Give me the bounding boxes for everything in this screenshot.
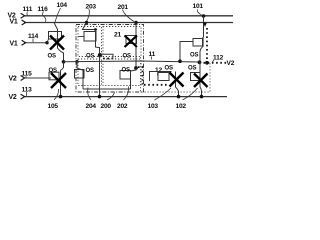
svg-text:105: 105 bbox=[48, 103, 59, 110]
wire W1 horizontal y61.5 connecting node A across to node E bbox=[64, 61, 200, 62]
label 115 with tick bbox=[22, 71, 33, 79]
transistor 203 gate rectangle bbox=[84, 32, 96, 42]
transistor 105 gate rectangle bbox=[49, 72, 59, 80]
label 111 with lead to V2 line bbox=[23, 6, 33, 16]
svg-text:V2: V2 bbox=[227, 60, 235, 67]
svg-text:103: 103 bbox=[148, 103, 159, 110]
transistor 101 gate rectangle bbox=[193, 39, 203, 47]
bold dotted charge path from node C down and right to transistor 103 bbox=[138, 67, 168, 85]
svg-text:V2: V2 bbox=[9, 76, 17, 83]
node small dot at 203 channel top bbox=[94, 28, 97, 31]
transistor 105 drain wire from node A bbox=[61, 62, 64, 71]
dash-dot outer box 200 bbox=[76, 25, 144, 93]
svg-text:21: 21 bbox=[114, 32, 121, 39]
node junction dot on V1 line for transistor 201 bbox=[134, 21, 138, 25]
fine dotted box 11 around output transistors bbox=[141, 57, 211, 92]
label 200 with lead to dash-dot box bbox=[101, 93, 115, 111]
transistor 203 channel and source jog bbox=[96, 30, 100, 55]
transistor 101 drain from V2 dot bbox=[203, 16, 205, 37]
transistor 201 channel and source to node C bbox=[135, 36, 137, 69]
transistor 202 channel and source down to W2 bbox=[130, 71, 132, 90]
transistor 104 drain wire from V1 line bbox=[54, 23, 58, 32]
label 105 with lead bbox=[48, 89, 59, 110]
label 11 with tick bbox=[149, 51, 156, 60]
svg-text:OS: OS bbox=[165, 66, 173, 72]
wire vertical from 203 source down to bottom line bbox=[99, 55, 101, 97]
node bold dot at dotted corner bbox=[205, 61, 209, 65]
svg-text:OS: OS bbox=[122, 68, 130, 74]
dotted box 21 around transistor 201 bbox=[103, 27, 141, 57]
wire 101 source down through node E to transistor 102 bbox=[200, 47, 203, 73]
label 101 with lead to junction dot bbox=[193, 3, 204, 15]
node junction dot 102 source on bottom line bbox=[200, 95, 204, 99]
transistor 204 drain wire from node B bbox=[77, 62, 83, 70]
label 203 with lead bbox=[86, 4, 97, 22]
wire V1 mid-left input line 114 bbox=[24, 42, 47, 44]
wire branch right from node at y54 bbox=[100, 54, 113, 57]
transistor 103 gate wire and loop bbox=[150, 72, 172, 82]
node junction dot D (180,61) bbox=[178, 59, 182, 63]
label V2 top-left with input arrow bbox=[8, 12, 25, 19]
wire V2 lower-left input line 115 bbox=[24, 77, 51, 79]
X mark over transistor 105 (off) bbox=[51, 73, 66, 88]
svg-text:OS: OS bbox=[123, 54, 131, 60]
transistor 101 channel bbox=[202, 37, 204, 47]
label V1 mid-left with input arrow bbox=[10, 40, 26, 47]
node junction dot A left (63.5,61.8) bbox=[62, 60, 66, 64]
bold dotted sense path vertical x207 bbox=[206, 28, 208, 63]
transistor 103 channel and source to bottom line bbox=[176, 72, 179, 97]
node junction dot 203 drain on V1 line bbox=[85, 21, 88, 24]
transistor 202 drain wire from node C bbox=[131, 68, 137, 71]
label V2 bottom-left with input arrow bbox=[9, 94, 25, 101]
svg-text:OS: OS bbox=[188, 66, 196, 72]
label 103 with lead bbox=[148, 88, 172, 110]
wire gate stub 104 bbox=[47, 39, 49, 43]
dotted box around transistor 203 bbox=[78, 27, 102, 57]
transistor 201 drain from V1 dot bbox=[135, 23, 137, 36]
svg-text:V2: V2 bbox=[9, 94, 17, 101]
transistor 105 channel and source to bottom line bbox=[60, 71, 62, 97]
dotted box around transistor 204 bbox=[78, 59, 102, 86]
node junction dot B (77,61.8) bbox=[75, 60, 79, 64]
svg-text:OS: OS bbox=[190, 53, 198, 59]
svg-text:204: 204 bbox=[86, 103, 97, 110]
wire V2 bottom bus line 113 bbox=[24, 96, 227, 98]
X mark over transistor 104 (off) bbox=[50, 36, 64, 50]
transistor 204 gate rectangle bbox=[75, 70, 85, 79]
label 114 with tick bbox=[28, 33, 39, 42]
label V2 lower-left with input arrow bbox=[9, 76, 25, 83]
label 12 with tick bbox=[155, 67, 162, 76]
label 102 with lead bbox=[176, 88, 198, 110]
dotted box around transistor 202 bbox=[103, 59, 141, 86]
svg-text:101: 101 bbox=[193, 3, 204, 10]
transistor 104 gate rectangle bbox=[49, 32, 62, 40]
svg-text:102: 102 bbox=[176, 103, 187, 110]
label 104 with lead to transistor 104 drain bbox=[55, 2, 67, 22]
X mark over transistor 103 (off) bbox=[170, 73, 184, 87]
node junction dot C (136,68) bbox=[134, 66, 138, 70]
bold dotted sense path arrow below V1 line bbox=[203, 23, 207, 28]
svg-text:115: 115 bbox=[22, 71, 33, 78]
svg-text:202: 202 bbox=[117, 103, 128, 110]
svg-text:OS: OS bbox=[49, 68, 57, 74]
transistor 102 channel and source to bottom line bbox=[200, 73, 202, 97]
transistor 104 channel and source to node A bbox=[58, 32, 64, 62]
node junction dot 105 source on bottom line bbox=[59, 95, 63, 99]
label V1 upper-left with input arrow bbox=[10, 18, 26, 25]
node junction dot E (199.5,62.3) bbox=[198, 60, 202, 64]
X mark over transistor 201 (off) bbox=[125, 36, 138, 48]
label 116 with lead to V1 line bbox=[38, 6, 49, 22]
node junction dot on V2 line for transistor 101 bbox=[202, 14, 206, 18]
label 204 with lead bbox=[86, 88, 97, 111]
X mark over transistor 102 (off) bbox=[194, 74, 208, 88]
svg-text:OS: OS bbox=[86, 68, 94, 74]
transistor 204 channel and source down to W2 bbox=[82, 70, 84, 90]
label 201 with lead to drain dot bbox=[118, 4, 135, 22]
svg-text:V1: V1 bbox=[10, 40, 18, 47]
transistor 102 gate rectangle bbox=[191, 73, 201, 81]
label 113 with tick bbox=[22, 87, 33, 97]
svg-text:V1: V1 bbox=[10, 18, 18, 25]
transistor 203 drain wire from V1 line bbox=[83, 23, 96, 30]
wire gate stub of 203 to dotted box edge bbox=[79, 36, 85, 38]
label 112 with tick bbox=[212, 55, 224, 63]
transistor 202 gate rectangle bbox=[120, 71, 131, 80]
label 202 with lead bbox=[117, 87, 129, 111]
wire V2 top bus line bbox=[24, 15, 233, 17]
transistor 103 gate rectangle bbox=[158, 73, 169, 81]
svg-text:104: 104 bbox=[57, 2, 68, 9]
svg-text:112: 112 bbox=[213, 55, 224, 62]
bold dotted sense path horizontal to V2 bbox=[204, 62, 228, 64]
node junction dot on bottom line x99.5 bbox=[98, 95, 102, 99]
wire W2 horizontal y89 connecting 204 and 202 sources bbox=[83, 88, 131, 90]
svg-text:203: 203 bbox=[86, 4, 97, 11]
node junction dot gate of 104 on V1 input bbox=[45, 41, 48, 44]
transistor 201 gate rectangle bbox=[126, 36, 137, 44]
svg-text:200: 200 bbox=[101, 103, 112, 110]
wire bold dotted short segment y58 bbox=[103, 58, 116, 60]
transistor 101 gate wire down to node D (diode connection) bbox=[180, 42, 193, 62]
svg-text:11: 11 bbox=[149, 51, 156, 58]
node junction dot 103 source on bottom line bbox=[177, 95, 181, 99]
node junction dot big at (100,55) bbox=[98, 53, 102, 57]
svg-text:OS: OS bbox=[48, 54, 56, 60]
wire V1 second bus line bbox=[24, 22, 233, 24]
